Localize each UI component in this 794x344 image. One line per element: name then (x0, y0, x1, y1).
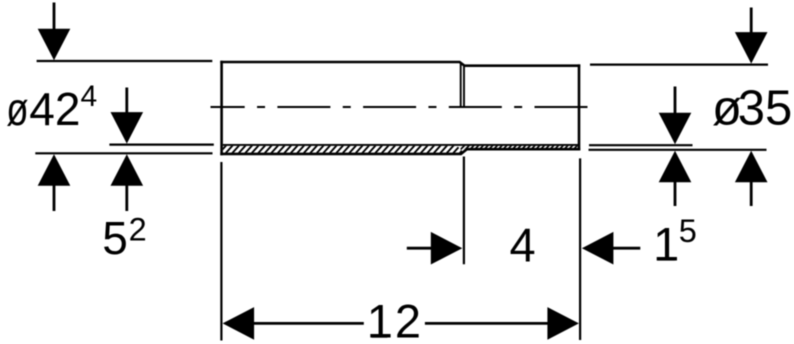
svg-text:ø: ø (6, 83, 28, 135)
svg-text:4: 4 (81, 80, 98, 113)
arrow down big left (ø42.4 top) (38, 3, 71, 61)
pipe step verticals (460, 63, 462, 107)
extension line vertical mid (step) (463, 157, 465, 265)
svg-text:2: 2 (129, 212, 147, 248)
hatch left wall (218, 145, 468, 155)
extension line bottom-right (ø35 lower) (589, 149, 767, 151)
extension line top-right (ø35 upper) (590, 63, 768, 65)
dimension 4 left arrow (407, 232, 463, 265)
extension line bottom-left (ø42.4 lower) (35, 152, 212, 154)
extension line vertical left (12) (220, 162, 222, 341)
dimension 1.5 arrow (582, 232, 640, 265)
svg-text:5: 5 (102, 212, 128, 264)
arrow up small left (5.2 bottom) (111, 154, 144, 211)
extension line inner-left (wall 5.2 upper) (109, 144, 213, 146)
pipe inner wall line (223, 144, 578, 146)
extension line top-left (ø42.4 upper) (37, 60, 213, 62)
extension line inner-right (wall 1.5 upper) (589, 144, 693, 146)
dimension 12 line with arrows (223, 307, 579, 340)
arrow down small right (1.5 top) (659, 87, 692, 145)
arrow up big right (ø35 bottom) (735, 151, 768, 206)
arrow down small left (5.2 top) (111, 88, 144, 144)
svg-text:42: 42 (29, 83, 80, 135)
arrow down big right (ø35 top) (735, 8, 768, 64)
svg-text:5: 5 (679, 213, 697, 249)
pipe outline (220, 61, 580, 155)
svg-text:1: 1 (653, 218, 679, 271)
hatch right wall (460, 144, 579, 150)
arrow up big left (ø42.4 bottom) (38, 154, 71, 211)
svg-text:35: 35 (738, 81, 793, 135)
extension line vertical right (12 / 4) (579, 158, 581, 340)
centerline dash-dot (211, 106, 591, 108)
svg-text:4: 4 (510, 219, 536, 272)
arrow up small right (1.5 bottom) (659, 151, 692, 206)
